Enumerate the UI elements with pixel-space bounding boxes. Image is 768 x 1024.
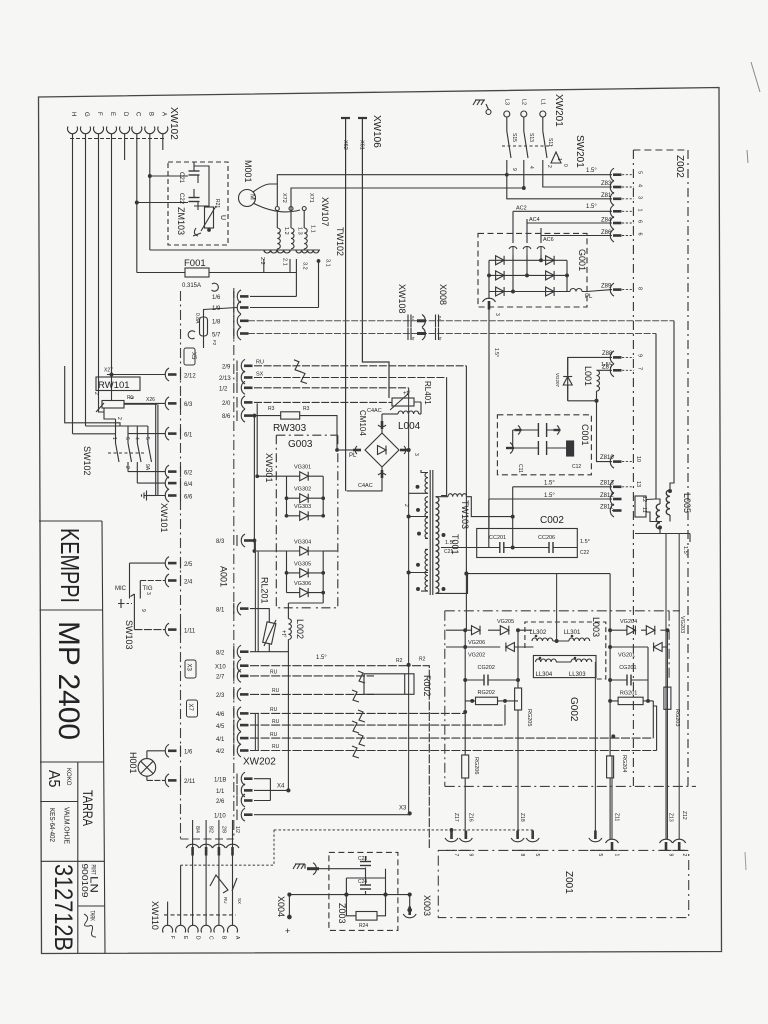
RT/RL401 thermal — [414, 402, 421, 414]
diode VG207 up — [563, 377, 572, 386]
warning triangle — [551, 152, 561, 163]
wire 1/6 to TW102 tap 3.2 — [250, 295, 296, 297]
arc 6/4 — [165, 477, 176, 490]
motor leads — [253, 184, 277, 206]
chassis ground — [293, 864, 305, 869]
cap CC206 — [549, 542, 553, 553]
Z001 dashed border — [438, 850, 688, 917]
diode VG205 — [500, 626, 509, 635]
feeder wires — [452, 756, 613, 839]
wire S15 down, to Z8 row and M001 — [507, 171, 612, 199]
thermal hook — [193, 228, 201, 236]
TW102 primary winding 1.1 — [303, 211, 305, 229]
title block frame — [39, 520, 102, 522]
arc 2/6 — [241, 794, 252, 807]
wire aux left — [65, 366, 120, 426]
wire pin G down — [85, 134, 87, 426]
right half top rail — [610, 629, 667, 631]
wire from C002/T001 to G002 right — [466, 573, 610, 575]
link C21/C22 to R21 — [194, 166, 209, 207]
second rail — [446, 646, 533, 648]
arc 8/6 to RW303 — [241, 409, 252, 422]
logo KEMPPI — [45, 528, 100, 951]
wire to C22 — [137, 202, 188, 204]
feed from 2/13 wire down — [441, 378, 447, 496]
taps left — [409, 470, 428, 591]
mechanical link dashed — [502, 145, 552, 147]
top row caps — [513, 429, 560, 431]
left terminal down — [104, 408, 116, 419]
arc 2/4 — [165, 574, 176, 587]
L003 coils box — [533, 656, 596, 678]
A001 dash-dot boundary left — [180, 291, 182, 839]
wire 4/1 up — [652, 701, 654, 738]
arc 5/7 — [237, 327, 248, 340]
bottom wire to G002 — [436, 574, 468, 594]
RL201 double line — [255, 541, 258, 652]
wire S13 down — [523, 171, 525, 188]
diode VG306 — [287, 592, 324, 594]
left bus + bottom arc out — [488, 260, 490, 299]
dashed tie — [164, 914, 236, 916]
ground wire into box — [319, 868, 366, 870]
arcs facing down — [186, 844, 199, 855]
PL output coil — [570, 289, 582, 292]
diode VG302 — [287, 497, 324, 499]
wire Z813 row — [513, 486, 612, 488]
X003 terminal — [409, 895, 411, 908]
thermal resistor — [263, 622, 276, 644]
arc 8/2 — [237, 645, 248, 658]
diodes right column — [546, 256, 555, 265]
left vertical — [464, 630, 466, 712]
ground on 6/6 — [142, 491, 147, 501]
secondary winding 3 — [296, 250, 319, 253]
arc 1/1B — [241, 772, 252, 785]
wire 4/6 to left vertical — [464, 711, 467, 714]
break symbols — [358, 671, 365, 683]
XW202 double line — [255, 713, 258, 750]
wires — [337, 449, 353, 451]
arc 6/6 — [165, 489, 176, 502]
chassis ground — [473, 100, 485, 105]
common + blade — [131, 594, 135, 630]
coil middle junction — [553, 641, 571, 662]
connector XW102 pin H — [68, 127, 78, 134]
left bus G003 — [286, 476, 288, 592]
arc 1/10 — [241, 808, 252, 821]
arc 4/1 — [237, 732, 248, 745]
XW108 double bars — [408, 315, 411, 328]
diodes left column — [496, 256, 505, 265]
wire S11 down to Z83 row — [543, 171, 612, 187]
wire pin F down — [99, 134, 105, 412]
X62 terminal — [341, 117, 350, 119]
arc 1/1 — [241, 784, 252, 797]
L005 coils — [666, 490, 670, 515]
right winding — [436, 497, 439, 521]
socket arcs around — [378, 425, 386, 427]
right bus G003 — [322, 476, 324, 598]
wire tap1.2 up and right to switch — [277, 175, 507, 184]
arc 2/9 + RU wire — [241, 359, 252, 372]
bottom row caps — [513, 430, 566, 448]
phase dots — [416, 485, 419, 488]
wire Z812 row — [489, 498, 612, 500]
connector XW102 pin C — [132, 127, 142, 134]
G002 dash-dot border — [445, 611, 696, 787]
left winding group2 — [425, 497, 428, 518]
arc 1/6 — [237, 290, 248, 303]
AC entry hooks — [509, 247, 517, 255]
connector XW102 pin A — [158, 127, 168, 134]
arcs Z88 Z87 Z810 — [610, 351, 621, 364]
long wire G001 down to C002 — [488, 307, 490, 529]
wire from A001 to Z001 — [181, 830, 274, 865]
diode VG206 — [472, 626, 481, 635]
wire row 175 to arc — [507, 174, 612, 176]
break diagonal — [210, 875, 237, 893]
CG202 cap — [484, 675, 488, 686]
bottom wire — [568, 400, 597, 402]
arc 2/8 — [241, 396, 252, 409]
capacitor C22 — [189, 198, 200, 202]
wire top to Z88 arc — [568, 357, 612, 400]
wire pin B down — [149, 134, 151, 250]
pin hooks — [163, 925, 173, 932]
plug circles X72 X71 — [275, 207, 279, 211]
junction — [148, 175, 151, 178]
handwritten initials — [84, 914, 96, 937]
wire pin E down — [111, 134, 113, 375]
feed from 2/9 wire down — [465, 366, 467, 574]
arc 4/5 — [237, 719, 248, 732]
long verticals to Z001 — [666, 534, 679, 840]
pin 12/11 box — [635, 496, 646, 517]
arc 4/6 — [237, 707, 248, 720]
diode VG202 reversed — [506, 643, 515, 652]
TW102 primary winding 1.3 — [290, 211, 292, 229]
AC2 wire — [513, 210, 612, 212]
diamond — [365, 433, 399, 467]
R24 — [356, 912, 377, 921]
arc 1/6b — [165, 744, 176, 757]
TW102 primary winding 1.2 — [276, 211, 278, 229]
top rail left half — [446, 629, 532, 631]
wire 1/9 — [250, 307, 319, 309]
arc 2/11 — [165, 774, 176, 787]
box C001 — [497, 415, 591, 475]
coils top row — [532, 638, 553, 641]
AC stubs into rows — [513, 255, 541, 292]
arc 2/10 — [241, 381, 252, 394]
CG201 — [627, 675, 631, 686]
AC4 wire — [527, 219, 612, 243]
wire 5/7 long right — [248, 333, 656, 335]
blades — [116, 443, 152, 462]
RG204 — [607, 756, 614, 778]
right second rail — [610, 646, 667, 648]
RG205 vertical resistor — [515, 688, 522, 710]
Z812 wire to L005 — [646, 498, 656, 501]
RW101 label box — [96, 377, 140, 391]
diode VG305 — [287, 572, 324, 574]
feed wires — [73, 426, 148, 434]
capacitor C21 — [189, 171, 200, 175]
arc 6/1 — [165, 427, 176, 440]
bridge row wires — [489, 260, 570, 291]
wire 8/3 — [241, 534, 252, 547]
arc 1/8 — [237, 314, 248, 327]
secondary winding 2 — [264, 250, 290, 253]
connector XW102 pin B — [145, 127, 155, 134]
RW303 resistor — [281, 412, 300, 419]
arc 1/11 — [165, 623, 176, 636]
wiper arrow — [96, 403, 104, 412]
X004 wire — [289, 894, 409, 896]
LL303 down wire — [594, 662, 596, 839]
connector XW102 pin E — [107, 127, 117, 134]
RG202 resistor — [476, 697, 498, 704]
verticals — [610, 630, 667, 839]
wire pin C down to fuse F001 — [136, 134, 138, 273]
wire 4/2 bend — [653, 706, 656, 751]
RG206 — [462, 755, 469, 778]
RG201 — [618, 697, 643, 704]
phase circles L3 L2 L1 — [504, 111, 510, 117]
fuse 0.8A on 1/9 branch — [204, 308, 238, 318]
coils bottom row — [536, 659, 557, 662]
arcs on Z001 top — [445, 831, 458, 842]
X004 terminal — [288, 895, 290, 915]
wire X61 down — [362, 118, 389, 398]
G003 dash box — [276, 435, 338, 608]
body — [102, 401, 124, 409]
side rails — [346, 869, 385, 895]
left winding group3 — [425, 549, 428, 570]
mech link — [108, 452, 144, 454]
outputs — [128, 462, 137, 483]
L005 bottom wires — [635, 515, 690, 542]
plug arcs — [422, 315, 425, 328]
connector XW102 pin F — [94, 127, 104, 134]
lamp circle — [138, 759, 156, 777]
double line — [156, 404, 158, 495]
coil L001 — [597, 369, 613, 371]
terminal to 6/3 wire — [124, 403, 157, 405]
body — [364, 674, 414, 695]
arc 1/9 — [237, 301, 248, 314]
wire pin H down — [72, 134, 74, 434]
pin stubs — [167, 902, 169, 925]
switch SW201 poles — [506, 117, 508, 171]
arc 6/2 — [165, 465, 176, 478]
inner diode — [378, 446, 387, 455]
vertical long from 2/10 row — [408, 388, 410, 814]
varistor R21 — [205, 207, 214, 228]
junction — [135, 201, 138, 204]
box C002 — [477, 529, 578, 558]
box G001 — [478, 233, 587, 307]
left winding group1 — [425, 473, 428, 494]
wire row 551 to right — [323, 550, 337, 552]
X008 double bars — [436, 315, 439, 328]
wire to G002 — [465, 574, 467, 631]
MIC contact — [129, 563, 131, 598]
Z003 dashed box — [329, 852, 398, 930]
wire Z811 row — [612, 510, 614, 512]
break symbol — [294, 360, 301, 372]
connector XW102 pin D — [120, 127, 130, 134]
motor M001 — [239, 190, 256, 207]
AC6 wire — [541, 228, 612, 243]
arc Z8 row pins 5..6 — [610, 168, 621, 181]
arc 2/5 — [165, 557, 176, 570]
cap CC201 — [500, 542, 504, 553]
diode VG301 — [287, 475, 324, 477]
C23 — [360, 862, 371, 866]
right bus — [566, 260, 568, 291]
long dotted wire from XW110 — [274, 829, 533, 831]
wire pin C right through fuse — [137, 272, 297, 274]
page frame border — [39, 88, 722, 954]
switch blades — [507, 131, 547, 158]
winding 2 taps — [264, 259, 290, 273]
coil L002 — [288, 619, 291, 640]
wire tap1.1 up and right — [291, 188, 524, 210]
secondary rail top — [150, 249, 320, 251]
wire 1/8 long right — [248, 320, 674, 322]
arc 6/3 — [165, 397, 176, 410]
arc 2/3 — [237, 688, 248, 701]
Z002 dashed borders — [632, 150, 634, 786]
X61 terminal — [358, 117, 367, 119]
XW102 tie line — [70, 138, 166, 140]
wire 4/5 up to RG202 — [504, 705, 506, 726]
A001 dash-dot boundary right — [233, 288, 235, 839]
contacts verticals — [116, 419, 148, 443]
arc 2/12 — [165, 368, 176, 381]
arc 2/7 — [237, 669, 248, 682]
diode VG304 — [287, 550, 324, 552]
A001 bottom corner — [181, 838, 234, 840]
arc 8/1 — [237, 602, 248, 615]
VG306 out to L002 top — [288, 598, 323, 618]
C24 — [360, 885, 371, 889]
actuator T — [118, 599, 124, 608]
connector XW102 pin G — [81, 127, 91, 134]
arc 2/13 + SX wire — [241, 371, 252, 384]
diode VG303 — [287, 515, 324, 517]
taps right — [436, 497, 449, 594]
wire to C21 — [150, 175, 188, 177]
fuse 0.8A circle — [212, 283, 219, 291]
fuse F001 body — [185, 268, 209, 277]
arc X10 — [237, 659, 248, 672]
core — [430, 470, 433, 595]
RG203 — [664, 687, 671, 709]
arc 4/2 — [237, 744, 248, 757]
TIG contact — [139, 581, 141, 599]
XW301 double line — [254, 403, 257, 551]
wire pin A stub — [162, 134, 164, 150]
wire pin D stub — [124, 134, 126, 160]
box ZM103 — [168, 162, 228, 245]
L004 coil — [382, 413, 398, 415]
L003 dashed box — [525, 622, 606, 679]
wire X62 long down — [345, 118, 347, 491]
